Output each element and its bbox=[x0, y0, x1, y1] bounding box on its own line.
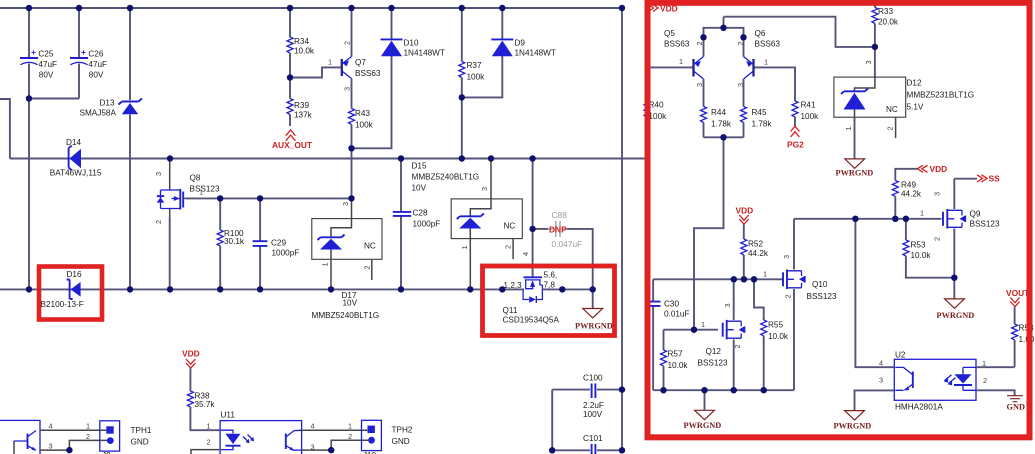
svg-text:C29: C29 bbox=[271, 239, 286, 248]
svg-text:D15: D15 bbox=[412, 162, 427, 171]
resistor R33 bbox=[872, 3, 899, 47]
svg-text:Q6: Q6 bbox=[755, 29, 766, 38]
wire R44/R45 common node bbox=[704, 136, 744, 138]
ground PWRGND (Q9) bbox=[937, 299, 975, 320]
svg-text:5,6,: 5,6, bbox=[544, 271, 558, 280]
svg-text:1: 1 bbox=[701, 320, 705, 329]
svg-text:1: 1 bbox=[328, 58, 332, 67]
resistor R39 bbox=[287, 78, 313, 127]
resistor R100 bbox=[217, 198, 245, 289]
svg-text:MMBZ5231BLT1G: MMBZ5231BLT1G bbox=[907, 91, 975, 100]
svg-text:3: 3 bbox=[341, 202, 350, 206]
capacitor C29 bbox=[253, 198, 300, 289]
svg-text:10V: 10V bbox=[343, 299, 358, 308]
node bus2 junctions bbox=[167, 156, 173, 162]
ground PWRGND (D12) bbox=[836, 117, 874, 177]
wire top bus bbox=[0, 7, 622, 9]
wire C100 to C101 left column bbox=[551, 390, 553, 451]
capacitor C100 2.2uF 100V bbox=[552, 374, 622, 420]
wire Q5/Q6 emitters to top node bbox=[704, 17, 744, 57]
transistor Q6 BSS63 bbox=[736, 29, 780, 87]
svg-text:137k: 137k bbox=[294, 111, 313, 120]
wire C25/C26 join node bbox=[29, 98, 79, 100]
svg-text:10.0k: 10.0k bbox=[294, 47, 315, 56]
ground GND (earth) bbox=[1007, 396, 1025, 412]
wire bus3 y=289.4 bbox=[0, 288, 524, 290]
wire comparator bus y=279.3 bbox=[653, 278, 754, 280]
wire vertical x=622 from top bus to C101 bbox=[621, 8, 623, 450]
connector TPH1 bbox=[100, 421, 152, 454]
svg-text:2: 2 bbox=[363, 265, 372, 269]
svg-text:BSS123: BSS123 bbox=[190, 185, 220, 194]
wire U10 pin3 ground bbox=[40, 449, 71, 451]
ground PWRGND (Q12 bus) bbox=[684, 390, 722, 430]
highlight box right area bbox=[648, 3, 1030, 438]
svg-text:SMAJ58A: SMAJ58A bbox=[80, 109, 117, 118]
svg-text:VDD: VDD bbox=[930, 164, 948, 174]
svg-text:PWRGND: PWRGND bbox=[836, 169, 874, 178]
wire R33 node to D12 pin3 bbox=[874, 47, 876, 78]
resistor R45 bbox=[741, 79, 773, 137]
svg-text:1.78k: 1.78k bbox=[752, 120, 773, 129]
wire Q6 base to R41 bbox=[755, 67, 796, 101]
svg-text:TPH1: TPH1 bbox=[131, 426, 152, 435]
svg-text:1.78k: 1.78k bbox=[711, 120, 732, 129]
svg-text:TPH2: TPH2 bbox=[392, 426, 413, 435]
resistor R41 bbox=[792, 101, 819, 127]
wire D9 anode to R37 bbox=[462, 56, 503, 97]
svg-text:R52: R52 bbox=[748, 240, 763, 249]
capacitor C30 bbox=[646, 279, 690, 390]
svg-text:10V: 10V bbox=[412, 184, 427, 193]
svg-text:100k: 100k bbox=[467, 73, 486, 82]
svg-text:Q8: Q8 bbox=[190, 174, 201, 183]
power flag SS bbox=[977, 174, 1000, 184]
svg-text:R41: R41 bbox=[801, 101, 816, 110]
wire U2 pin2 to GND bbox=[976, 390, 1015, 395]
power flag VDD (top-left of box) bbox=[649, 4, 678, 14]
wire C88/Q11-gate column bbox=[532, 159, 534, 278]
wire R55 branch bbox=[754, 279, 764, 320]
svg-text:1: 1 bbox=[764, 58, 768, 67]
svg-text:3: 3 bbox=[879, 376, 883, 385]
svg-text:2.2uF: 2.2uF bbox=[583, 401, 604, 410]
svg-text:R44: R44 bbox=[711, 108, 726, 117]
svg-text:1000pF: 1000pF bbox=[413, 220, 441, 229]
ground PWRGND (U2) bbox=[834, 411, 872, 431]
svg-text:BSS63: BSS63 bbox=[755, 40, 781, 49]
svg-text:D12: D12 bbox=[907, 79, 922, 88]
svg-text:2: 2 bbox=[733, 344, 742, 348]
optocoupler U11 bbox=[220, 411, 302, 454]
svg-text:100k: 100k bbox=[649, 112, 668, 121]
resistor R58 bbox=[1012, 307, 1035, 367]
svg-text:R40: R40 bbox=[649, 101, 664, 110]
svg-text:HMHA2801A: HMHA2801A bbox=[895, 403, 943, 412]
node R43/D10 junction bbox=[349, 145, 355, 151]
svg-text:4: 4 bbox=[311, 422, 315, 431]
capacitor C101 bbox=[552, 434, 622, 454]
svg-text:Q10: Q10 bbox=[812, 280, 828, 289]
power flag VOUT bbox=[1006, 288, 1030, 307]
svg-text:1: 1 bbox=[207, 422, 211, 431]
svg-text:R34: R34 bbox=[294, 37, 309, 46]
svg-text:2: 2 bbox=[343, 41, 352, 45]
svg-text:1: 1 bbox=[763, 270, 767, 279]
wire bus to Q10 gate bbox=[754, 278, 783, 280]
transistor Q7 BSS63 bbox=[342, 8, 381, 109]
svg-text:BSS123: BSS123 bbox=[807, 292, 837, 301]
svg-text:1: 1 bbox=[982, 359, 986, 368]
svg-text:BSS123: BSS123 bbox=[698, 359, 728, 368]
node top bus junctions bbox=[26, 5, 32, 11]
svg-text:D9: D9 bbox=[515, 39, 526, 48]
svg-text:NC: NC bbox=[886, 105, 898, 114]
svg-text:3: 3 bbox=[933, 192, 942, 196]
svg-text:10.0k: 10.0k bbox=[911, 251, 932, 260]
svg-text:2: 2 bbox=[207, 438, 211, 447]
svg-text:1: 1 bbox=[920, 209, 924, 218]
capacitor C28 bbox=[393, 159, 440, 290]
wire comparator output down to Q12 gate bbox=[694, 137, 724, 329]
svg-text:R43: R43 bbox=[355, 109, 370, 118]
svg-text:PG2: PG2 bbox=[787, 140, 804, 150]
svg-text:7,8: 7,8 bbox=[544, 281, 556, 290]
svg-text:Q9: Q9 bbox=[970, 210, 981, 219]
svg-text:AUX_OUT: AUX_OUT bbox=[272, 140, 313, 150]
diode D9 1N4148WT bbox=[491, 8, 556, 58]
svg-text:2: 2 bbox=[86, 432, 90, 441]
svg-text:GND: GND bbox=[392, 437, 410, 446]
svg-text:1N4148WT: 1N4148WT bbox=[404, 49, 445, 58]
svg-text:Q5: Q5 bbox=[664, 29, 675, 38]
svg-text:C101: C101 bbox=[583, 434, 603, 443]
power flag VDD (R52) bbox=[736, 206, 754, 225]
power flag VDD (R49) bbox=[918, 164, 948, 174]
svg-text:1,2,3: 1,2,3 bbox=[504, 281, 523, 290]
svg-text:R39: R39 bbox=[294, 101, 309, 110]
wire left edge net y=99 to bus2 bbox=[0, 99, 10, 159]
svg-text:1: 1 bbox=[321, 262, 330, 266]
svg-text:GND: GND bbox=[131, 438, 149, 447]
mosfet Q10 BSS123 bbox=[782, 219, 837, 390]
zener D12 MMBZ5231BLT1G bbox=[834, 77, 974, 138]
svg-text:20.0k: 20.0k bbox=[878, 18, 899, 27]
resistor R43 bbox=[349, 109, 374, 149]
svg-text:2: 2 bbox=[504, 245, 513, 249]
svg-text:Q12: Q12 bbox=[706, 347, 722, 356]
transistor Q5 BSS63 bbox=[664, 29, 704, 87]
wire R34 node to Q7 base bbox=[290, 67, 341, 77]
capacitor C26 bbox=[70, 8, 107, 99]
svg-text:2: 2 bbox=[784, 294, 793, 298]
wire Q11 drain to PWRGND node bbox=[542, 288, 592, 290]
svg-text:C28: C28 bbox=[413, 209, 428, 218]
capacitor C88 DNP 0.047uF bbox=[521, 210, 593, 289]
svg-text:35.7k: 35.7k bbox=[195, 400, 216, 409]
svg-text:C100: C100 bbox=[583, 374, 603, 383]
svg-text:MMBZ5240BLT1G: MMBZ5240BLT1G bbox=[312, 311, 380, 320]
svg-text:MMBZ5240BLT1G: MMBZ5240BLT1G bbox=[412, 173, 480, 182]
svg-text:PWRGND: PWRGND bbox=[575, 322, 613, 331]
svg-text:R33: R33 bbox=[878, 7, 893, 16]
svg-text:R49: R49 bbox=[901, 181, 916, 190]
power flag AUX_OUT bbox=[272, 130, 313, 150]
zener D15 MMBZ5240BLT1G bbox=[412, 159, 523, 290]
svg-text:D13: D13 bbox=[100, 99, 115, 108]
svg-text:R57: R57 bbox=[668, 350, 683, 359]
svg-text:+: + bbox=[81, 47, 86, 57]
svg-text:3: 3 bbox=[864, 60, 873, 64]
svg-text:C30: C30 bbox=[664, 300, 679, 309]
mosfet Q12 BSS123 bbox=[698, 279, 745, 390]
svg-text:VDD: VDD bbox=[736, 206, 754, 216]
svg-text:BSS63: BSS63 bbox=[664, 40, 690, 49]
diode D13 SMAJ58A bbox=[80, 8, 143, 289]
svg-text:2: 2 bbox=[933, 237, 942, 241]
highlight box Q11 bbox=[483, 266, 615, 336]
svg-text:U11: U11 bbox=[221, 411, 236, 420]
svg-text:100k: 100k bbox=[801, 112, 820, 121]
svg-text:1N4148WT: 1N4148WT bbox=[515, 49, 556, 58]
wire bottom bus y=390.2 bbox=[653, 389, 794, 391]
svg-text:44.2k: 44.2k bbox=[901, 190, 922, 199]
svg-text:0.01uF: 0.01uF bbox=[664, 310, 690, 319]
wire U10 pin4 to TPH1 pin1 bbox=[40, 429, 106, 431]
svg-text:NC: NC bbox=[504, 222, 516, 231]
wire U2 pin3 to PWRGND bbox=[855, 390, 895, 410]
svg-text:47uF: 47uF bbox=[88, 60, 107, 69]
svg-text:C88: C88 bbox=[552, 210, 568, 220]
diode D14 BAT46WJ,115 bbox=[50, 138, 102, 178]
svg-text:R45: R45 bbox=[752, 108, 767, 117]
wire U11 pin4 to TPH2 pin1 bbox=[302, 429, 368, 431]
wire U11 pin2 exit bbox=[191, 450, 220, 454]
svg-text:3: 3 bbox=[782, 255, 791, 259]
optocoupler U10 (partial, left edge) bbox=[0, 420, 40, 454]
resistor R37 bbox=[459, 8, 485, 159]
svg-text:47uF: 47uF bbox=[38, 60, 57, 69]
svg-text:PWRGND: PWRGND bbox=[834, 421, 872, 430]
svg-text:80V: 80V bbox=[39, 71, 54, 80]
svg-text:3: 3 bbox=[343, 87, 352, 91]
wire U2 pin1 to R58 bbox=[976, 366, 1015, 368]
svg-text:5.1V: 5.1V bbox=[907, 103, 924, 112]
svg-text:B2100-13-F: B2100-13-F bbox=[41, 300, 84, 309]
wire emitter node to R33 node bbox=[724, 17, 875, 47]
svg-text:Q11: Q11 bbox=[503, 306, 518, 315]
svg-text:C25: C25 bbox=[38, 50, 53, 59]
resistor R53 bbox=[903, 219, 954, 278]
optocoupler U2 HMHA2801A bbox=[894, 351, 976, 412]
svg-text:3: 3 bbox=[154, 172, 163, 176]
wire VDD flag down to Q5 base rail bbox=[646, 12, 648, 68]
wire TPH1 pin2 to ground node bbox=[69, 440, 107, 450]
svg-text:U2: U2 bbox=[895, 351, 906, 360]
svg-text:1: 1 bbox=[86, 422, 90, 431]
svg-text:PWRGND: PWRGND bbox=[684, 421, 722, 430]
svg-text:1: 1 bbox=[348, 422, 352, 431]
svg-text:SS: SS bbox=[989, 174, 1001, 184]
wire Q12 gate rail bbox=[664, 329, 719, 331]
diode D16 B2100-13-F bbox=[41, 270, 84, 309]
svg-text:CSD19534Q5A: CSD19534Q5A bbox=[503, 316, 560, 325]
svg-text:80V: 80V bbox=[89, 71, 104, 80]
resistor R44 bbox=[701, 79, 732, 137]
svg-text:R37: R37 bbox=[467, 61, 482, 70]
svg-text:2: 2 bbox=[348, 432, 352, 441]
svg-text:30.1k: 30.1k bbox=[224, 237, 245, 246]
svg-text:D16: D16 bbox=[67, 270, 82, 279]
svg-text:4: 4 bbox=[49, 422, 53, 431]
highlight box D16 bbox=[39, 267, 102, 320]
resistor R38 bbox=[187, 369, 220, 431]
svg-text:C26: C26 bbox=[88, 50, 103, 59]
svg-text:44.2k: 44.2k bbox=[748, 249, 769, 258]
svg-text:BAT46WJ,115: BAT46WJ,115 bbox=[50, 169, 102, 178]
power flag VDD (R38) bbox=[182, 349, 200, 369]
svg-text:BSS123: BSS123 bbox=[970, 220, 1000, 229]
svg-text:4: 4 bbox=[521, 252, 530, 256]
svg-text:VDD: VDD bbox=[182, 349, 200, 359]
svg-text:3: 3 bbox=[723, 303, 732, 307]
resistor R40 bbox=[644, 67, 667, 158]
wire Q5 base rail bbox=[647, 66, 693, 68]
svg-text:Q7: Q7 bbox=[355, 58, 366, 67]
svg-text:1000pF: 1000pF bbox=[272, 249, 300, 258]
wire Q8 gate rail y=198 bbox=[186, 197, 352, 199]
wire gate bus y=218.8 bbox=[794, 218, 942, 220]
wire C25 node down to bus3 bbox=[28, 99, 30, 290]
ground PWRGND (Q11) bbox=[575, 289, 613, 330]
zener D17 MMBZ5240BLT1G bbox=[312, 198, 383, 320]
svg-text:0.047uF: 0.047uF bbox=[552, 239, 583, 249]
svg-text:100V: 100V bbox=[583, 410, 603, 419]
svg-text:3: 3 bbox=[49, 442, 53, 451]
mosfet Q8 BSS123 bbox=[154, 159, 220, 290]
wire bus2 y=158.5 bbox=[10, 158, 646, 160]
svg-text:2: 2 bbox=[886, 126, 895, 130]
svg-text:D10: D10 bbox=[404, 39, 419, 48]
mosfet Q9 BSS123 bbox=[933, 179, 1000, 299]
wire U11 pin3 ground bbox=[302, 449, 333, 451]
svg-text:100k: 100k bbox=[355, 121, 374, 130]
resistor R57 bbox=[661, 330, 689, 391]
wire TPH2 pin2 to ground node bbox=[331, 440, 368, 450]
svg-text:PWRGND: PWRGND bbox=[937, 311, 975, 320]
svg-text:3: 3 bbox=[311, 442, 315, 451]
wire U2 pin4 branch bbox=[855, 219, 894, 367]
svg-text:1: 1 bbox=[844, 126, 853, 130]
resistor R49 bbox=[892, 169, 922, 219]
svg-text:4: 4 bbox=[879, 359, 883, 368]
diode D10 1N4148WT bbox=[381, 8, 445, 58]
svg-text:R55: R55 bbox=[768, 321, 783, 330]
svg-text:D14: D14 bbox=[66, 138, 81, 147]
node R37/D9 junction bbox=[459, 94, 465, 100]
svg-text:10.0k: 10.0k bbox=[668, 361, 689, 370]
resistor R34 bbox=[287, 8, 315, 78]
svg-text:DNP: DNP bbox=[549, 225, 567, 235]
capacitor C25 bbox=[20, 8, 57, 99]
svg-text:BSS63: BSS63 bbox=[355, 69, 381, 78]
svg-text:2: 2 bbox=[983, 376, 987, 385]
wire R43 node down to gate rail bbox=[351, 148, 353, 198]
wire R43 node to D10 anode bbox=[352, 56, 392, 148]
resistor R52 bbox=[741, 225, 769, 280]
svg-text:GND: GND bbox=[1007, 403, 1025, 412]
resistor R55 bbox=[761, 320, 789, 390]
svg-text:+: + bbox=[31, 47, 36, 57]
svg-text:1: 1 bbox=[199, 188, 203, 197]
mosfet Q11 CSD19534Q5A bbox=[503, 271, 560, 325]
svg-text:2: 2 bbox=[154, 220, 163, 224]
svg-text:3: 3 bbox=[480, 187, 489, 191]
node R34/R39 junction bbox=[287, 75, 293, 81]
svg-text:1: 1 bbox=[460, 245, 469, 249]
svg-text:R53: R53 bbox=[911, 241, 926, 250]
svg-text:NC: NC bbox=[364, 242, 376, 251]
svg-text:10.0k: 10.0k bbox=[768, 332, 789, 341]
connector TPH2 bbox=[362, 420, 413, 454]
svg-text:1: 1 bbox=[679, 57, 683, 66]
power flag PG2 bbox=[787, 126, 804, 149]
